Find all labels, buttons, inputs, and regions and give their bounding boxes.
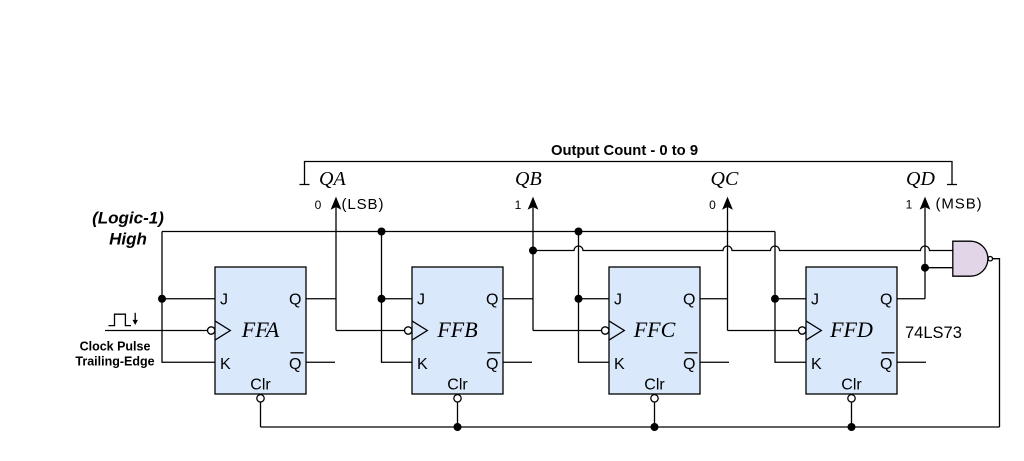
FFB Qbar stub	[503, 361, 532, 363]
svg-text:J: J	[614, 292, 622, 309]
wire QC to FFD clock	[728, 330, 799, 332]
svg-text:Q: Q	[486, 356, 498, 373]
junction FFB J	[378, 295, 386, 303]
svg-text:Q: Q	[683, 292, 695, 309]
svg-text:FFC: FFC	[633, 317, 676, 342]
wire QA to FFB clock	[336, 330, 405, 332]
svg-text:0: 0	[315, 198, 322, 212]
wire clock input FFA	[105, 330, 207, 332]
wire QB to FFC clock	[533, 330, 602, 332]
arrow QC	[722, 197, 733, 331]
svg-text:Q: Q	[289, 292, 301, 309]
wire FFC Q to QC node	[700, 298, 728, 300]
junction QD NAND	[921, 264, 929, 272]
flip-flop FFC	[602, 267, 701, 394]
svg-text:J: J	[220, 292, 228, 309]
junction FFD clr	[848, 423, 856, 431]
wire FFB JK feed	[382, 232, 413, 363]
flip-flop FFA	[208, 267, 307, 394]
svg-text:Clr: Clr	[644, 376, 665, 393]
svg-text:1: 1	[515, 198, 522, 212]
label Logic-1 High	[92, 209, 164, 249]
svg-text:QB: QB	[515, 168, 542, 190]
wire QD to NAND input	[925, 267, 953, 269]
junction QB NAND	[529, 247, 537, 255]
wire QB to NAND input with hops	[533, 246, 953, 251]
svg-text:Q: Q	[683, 356, 695, 373]
wire clear rail	[261, 426, 1000, 428]
svg-text:High: High	[109, 230, 147, 249]
svg-text:(Logic-1): (Logic-1)	[92, 209, 164, 228]
svg-text:(LSB): (LSB)	[342, 196, 385, 213]
flip-flop FFD	[799, 267, 898, 394]
flip-flop FFB	[405, 267, 504, 394]
svg-text:K: K	[811, 356, 822, 373]
svg-text:1: 1	[906, 198, 913, 212]
svg-text:J: J	[811, 292, 819, 309]
junction rail FFB	[378, 228, 386, 236]
junction FFC J	[575, 295, 583, 303]
wire FFC JK feed	[579, 232, 610, 363]
FFD clr bubble	[848, 395, 855, 402]
wire FFC clr drop	[654, 402, 656, 427]
svg-text:J: J	[417, 292, 425, 309]
nand gate U1	[953, 241, 993, 276]
label Clock Pulse Trailing-Edge	[75, 340, 154, 369]
svg-text:Q: Q	[486, 292, 498, 309]
wire FFA clr drop	[260, 402, 262, 427]
svg-text:0: 0	[709, 198, 716, 212]
FFC clr bubble	[651, 395, 658, 402]
junction FFA J	[158, 295, 166, 303]
svg-text:Output Count - 0 to 9: Output Count - 0 to 9	[551, 143, 698, 159]
svg-text:Trailing-Edge: Trailing-Edge	[75, 355, 154, 369]
wire FFA Q to QA node	[306, 298, 336, 300]
output bracket	[300, 162, 958, 185]
svg-text:Q: Q	[880, 292, 892, 309]
junction FFC clr	[651, 423, 659, 431]
junction FFB clr	[454, 423, 462, 431]
wire FFD Q to QD node	[897, 298, 925, 300]
svg-text:Clr: Clr	[250, 376, 271, 393]
svg-text:74LS73: 74LS73	[905, 324, 962, 342]
svg-text:K: K	[614, 356, 625, 373]
svg-text:Clr: Clr	[447, 376, 468, 393]
wire logic-1 rail	[162, 231, 775, 233]
junction rail FFC	[575, 228, 583, 236]
svg-text:FFB: FFB	[436, 317, 477, 342]
wire FFD clr drop	[851, 402, 853, 427]
wire FFD JK feed	[775, 232, 806, 363]
FFD Qbar stub	[897, 361, 926, 363]
clock pulse arrowhead	[133, 320, 138, 325]
svg-text:Q: Q	[289, 356, 301, 373]
svg-text:Clock Pulse: Clock Pulse	[80, 340, 151, 354]
svg-text:QD: QD	[906, 168, 935, 190]
FFA Qbar stub	[306, 361, 335, 363]
wire FFB Q to QB node	[503, 298, 533, 300]
FFB clr bubble	[454, 395, 461, 402]
FFA clr bubble	[257, 395, 264, 402]
svg-text:FFA: FFA	[241, 317, 280, 342]
svg-text:FFD: FFD	[829, 317, 873, 342]
FFC Qbar stub	[700, 361, 729, 363]
arrow QB	[528, 197, 539, 331]
wire FFA JK feed	[162, 232, 215, 363]
arrow QD	[920, 197, 931, 299]
svg-text:K: K	[417, 356, 428, 373]
svg-text:Clr: Clr	[841, 376, 862, 393]
svg-text:(MSB): (MSB)	[936, 196, 983, 213]
svg-text:Q: Q	[880, 356, 892, 373]
svg-text:QA: QA	[319, 168, 346, 190]
junction FFD J	[771, 295, 779, 303]
arrow QA	[331, 197, 342, 331]
svg-text:QC: QC	[711, 168, 739, 190]
clock pulse symbol	[109, 313, 136, 326]
svg-text:K: K	[220, 356, 231, 373]
wire FFB clr drop	[457, 402, 459, 427]
wire NAND output to clear rail	[993, 259, 1000, 427]
